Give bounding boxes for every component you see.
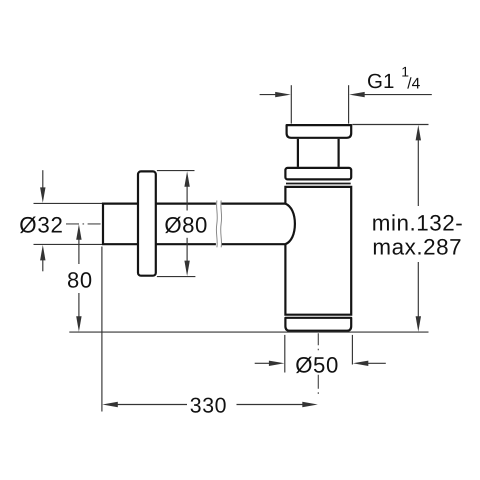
- O50 arrows: [255, 362, 270, 364]
- svg-text:330: 330: [190, 393, 227, 417]
- outlet pipe to wall: [103, 204, 216, 245]
- pipe centerline: [66, 223, 102, 225]
- O80 dimension line: [184, 171, 189, 187]
- pipe break mark: [215, 201, 218, 248]
- svg-text:Ø32: Ø32: [19, 213, 63, 238]
- min-max dimension line: [416, 125, 421, 140]
- O80 extension lines: [157, 170, 195, 172]
- O32 extension lines: [34, 202, 103, 204]
- top flange nut: [287, 125, 352, 138]
- svg-text:min.132-: min.132-: [372, 210, 464, 235]
- G1 1/4 dimension arrows: [260, 94, 278, 96]
- min-max extension lines: [352, 124, 428, 126]
- 80 dimension line: [76, 224, 81, 240]
- trap body cup: [285, 187, 351, 315]
- bottle centerline: [317, 333, 319, 352]
- svg-text:/4: /4: [407, 76, 420, 93]
- svg-text:Ø50: Ø50: [295, 353, 339, 378]
- svg-text:80: 80: [67, 267, 93, 292]
- pipe end dome: [285, 204, 295, 245]
- O50 extension lines: [284, 335, 286, 373]
- G1 1/4 extension lines: [290, 85, 292, 123]
- inlet neck: [297, 139, 299, 167]
- ring joint line: [286, 183, 351, 185]
- 330 dimension line: [102, 402, 118, 407]
- svg-text:Ø80: Ø80: [164, 213, 207, 238]
- O32 arrows: [42, 170, 44, 188]
- bottom cap: [285, 318, 351, 331]
- body top ring: [285, 168, 351, 180]
- 330 extension line: [101, 247, 103, 412]
- wall flange: [138, 171, 156, 275]
- svg-text:max.287: max.287: [372, 234, 462, 259]
- svg-text:G1: G1: [367, 70, 394, 93]
